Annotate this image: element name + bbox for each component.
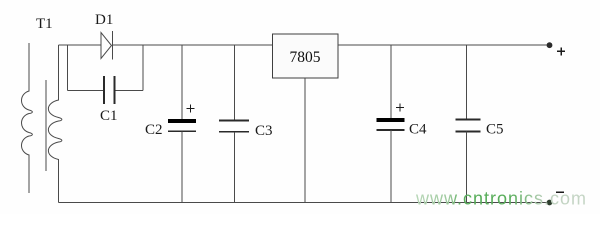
transformer T1 label [36,16,53,32]
svg-text:7805: 7805 [290,49,321,66]
voltage regulator U1 7805 [273,34,339,78]
svg-text:www.cntronics.com: www.cntronics.com [415,189,587,209]
capacitor C3 [219,121,249,132]
transformer T1 core [45,80,47,171]
svg-text:C1: C1 [100,108,118,124]
wire: C5 branch lower lead [466,132,468,203]
capacitor C2 label [145,122,163,138]
wire: C4 branch upper lead [390,45,392,118]
wire: C2 branch lower lead [181,131,183,202]
transformer T1 secondary winding [48,45,62,203]
capacitor C4 (electrolytic) [377,118,405,130]
capacitor C4 label [409,122,427,138]
wire: C1 loop right vertical [142,45,144,91]
capacitor C2 (electrolytic) [168,119,196,132]
wire: C5 branch upper lead [466,45,468,120]
svg-text:C3: C3 [255,123,273,139]
C2 polarity plus sign [187,105,195,113]
wire: C1 loop bottom right segment [115,90,144,92]
diode D1 label [95,12,113,28]
wire: C2 branch upper lead [181,45,183,119]
svg-text:C2: C2 [145,122,163,138]
- terminal minus sign [556,191,564,193]
capacitor C5 [456,120,481,132]
+ terminal plus sign [557,47,565,55]
diode D1 [101,31,113,60]
wire: C1 loop left vertical [67,45,69,91]
wire: regulator ground pin [304,78,306,203]
wire: C1 loop bottom left segment [68,90,105,92]
wire: top rail from diode cathode to regulator input [113,44,273,46]
node: + output terminal [547,42,553,48]
wire: top rail from secondary to diode anode [59,44,102,46]
capacitor C1 [104,76,115,104]
capacitor C3 label [255,123,273,139]
capacitor C1 label [100,108,118,124]
C4 polarity plus sign [396,104,404,112]
wire: regulator output to + terminal [338,44,548,46]
wire: C3 branch lower lead [234,132,236,203]
transformer T1 primary winding [22,43,33,193]
svg-text:T1: T1 [36,16,53,32]
watermark www.cntronics.com [415,189,587,209]
wire: bottom rail [59,202,550,204]
capacitor C5 label [486,122,504,138]
node: - output terminal [547,200,553,206]
svg-text:C5: C5 [486,122,504,138]
svg-text:C4: C4 [409,122,427,138]
wire: C3 branch upper lead [234,45,236,121]
svg-text:D1: D1 [95,12,113,28]
wire: C4 branch lower lead [390,130,392,203]
